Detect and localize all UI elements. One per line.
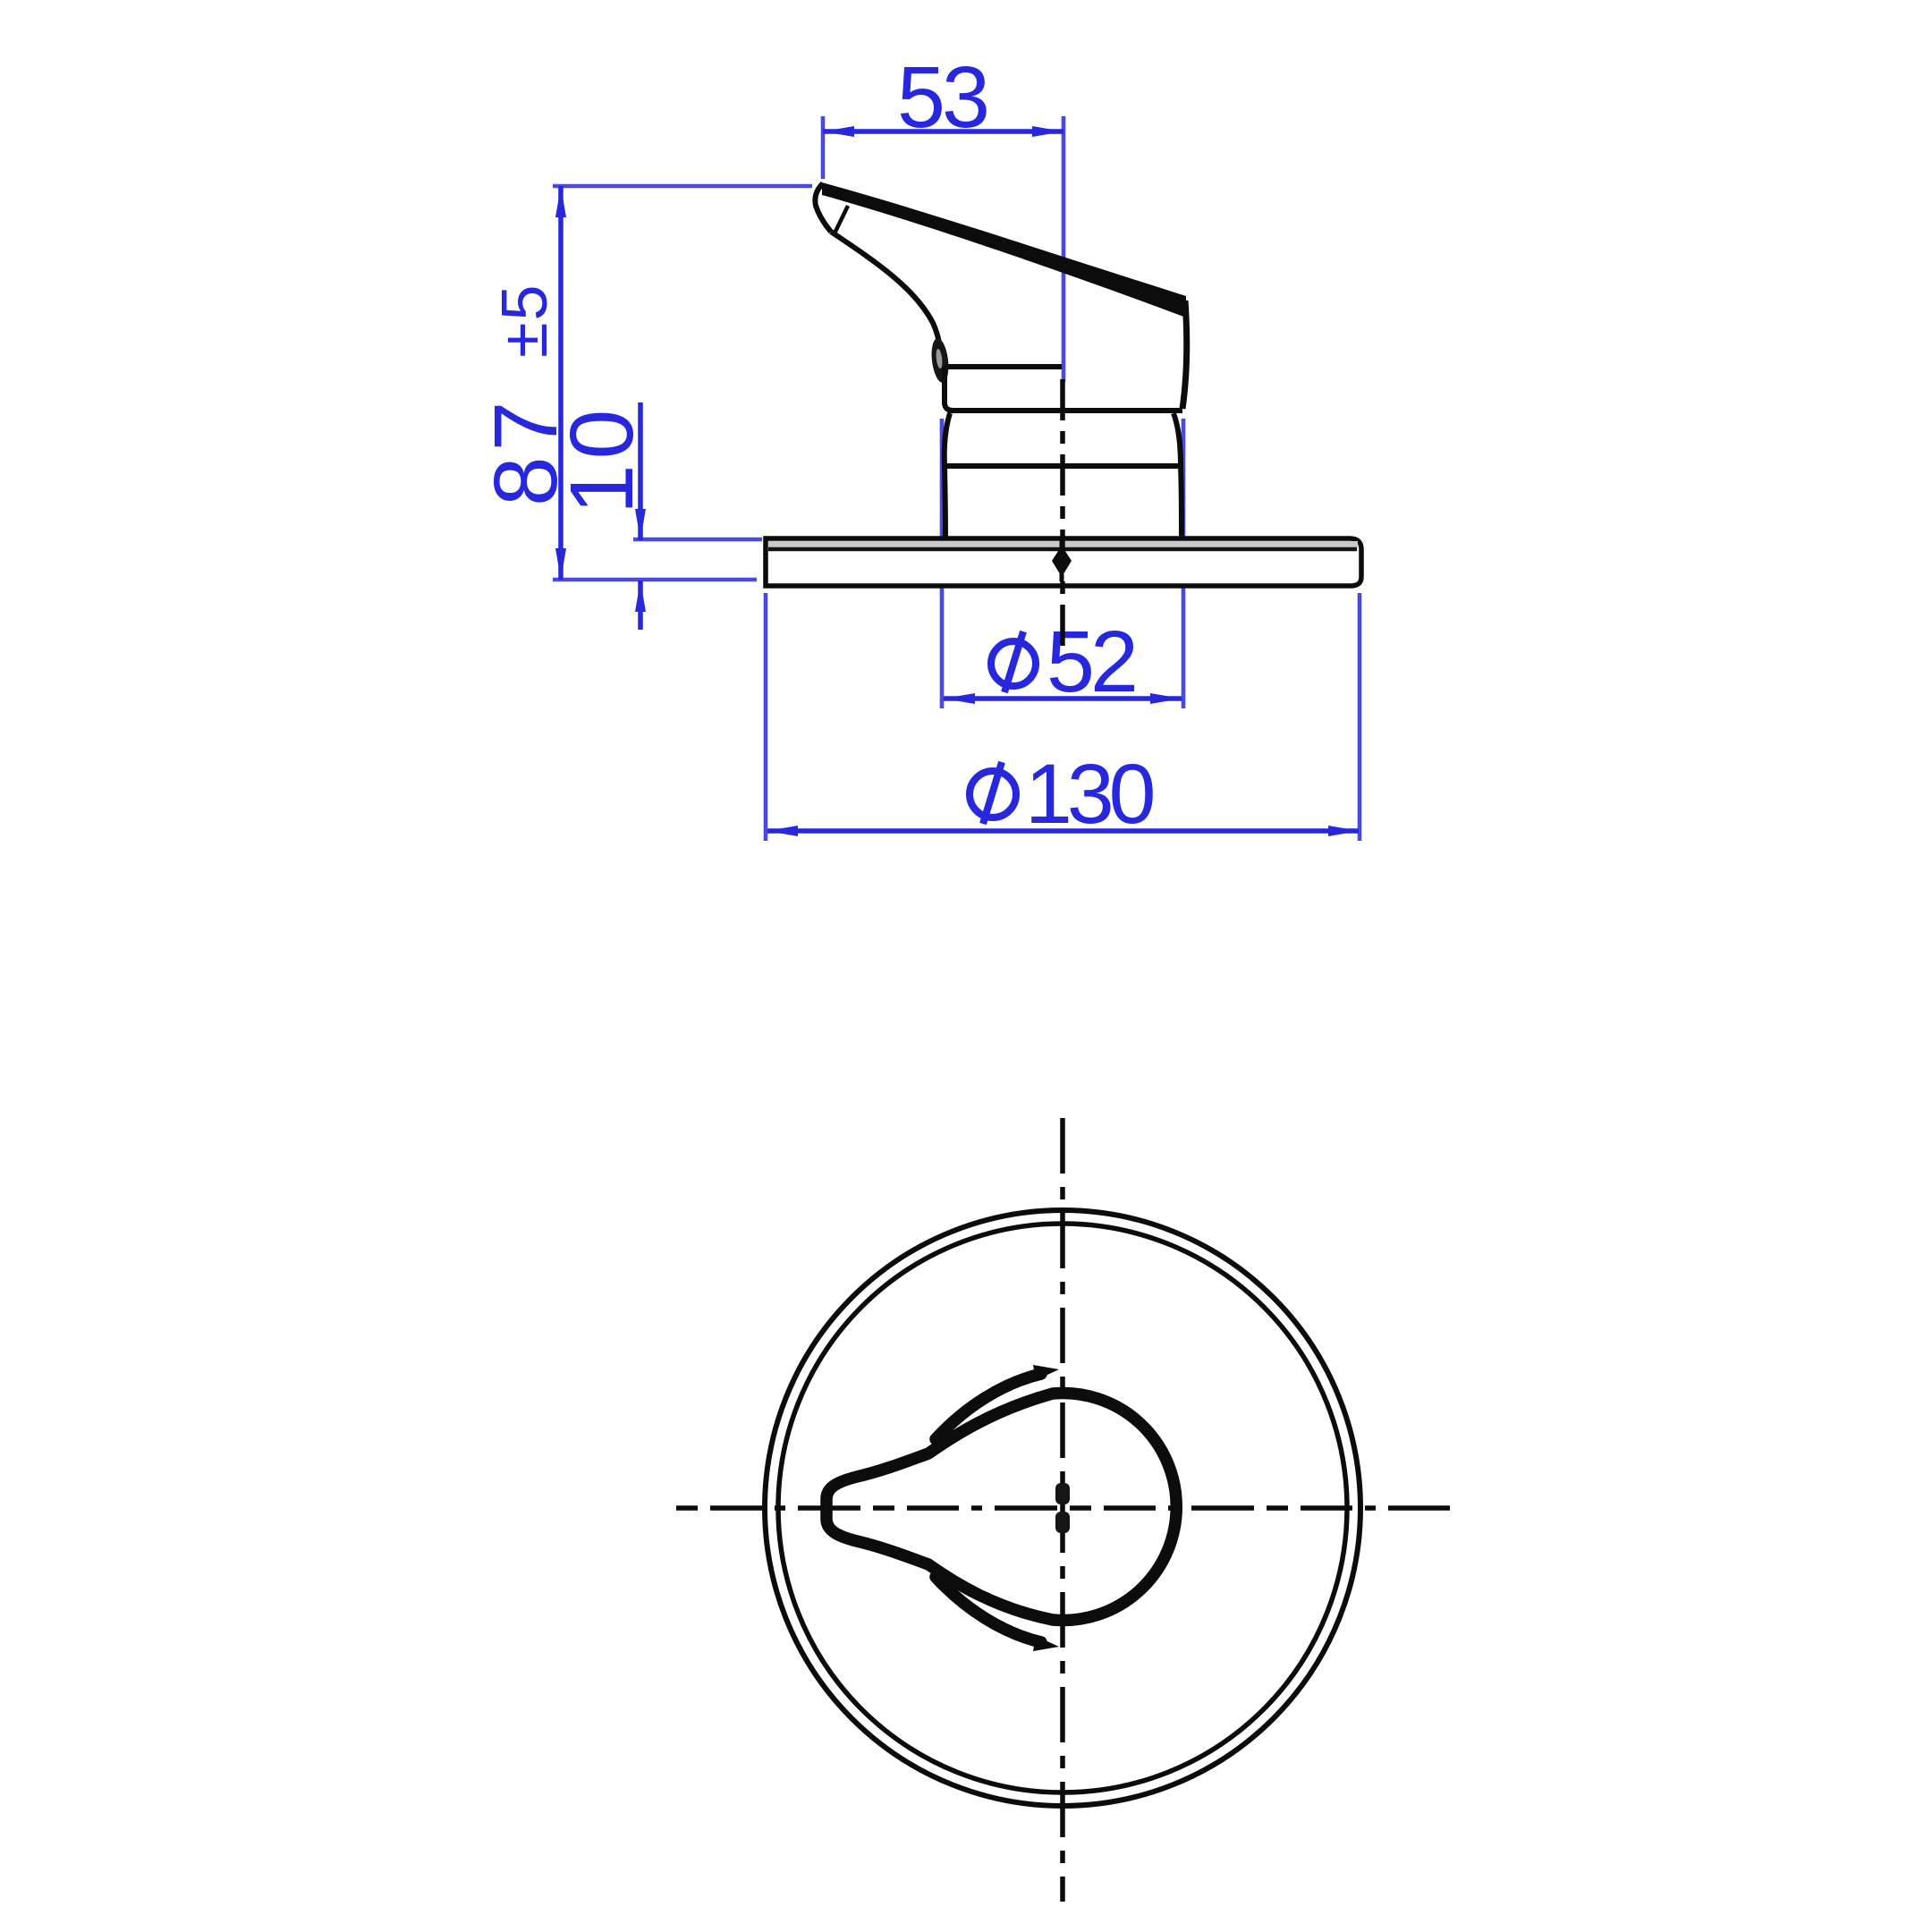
- diameter 52 arrow right: [1150, 693, 1182, 704]
- svg-text:130: 130: [1025, 747, 1154, 842]
- escutcheon plate center screw: [1052, 546, 1072, 577]
- dimension 87 arrow bottom: [555, 548, 566, 580]
- handle lever right edge: [1182, 301, 1187, 409]
- escutcheon plate (side view): [766, 538, 1361, 586]
- dimension 87/10 bottom extension line: [553, 578, 757, 582]
- handle collar top line: [945, 364, 1062, 369]
- rotation arc lower: [936, 1577, 1041, 1642]
- front view horizontal centerline: [676, 1505, 1450, 1511]
- svg-text:10: 10: [552, 404, 652, 514]
- rotation arc lower arrowhead: [1033, 1636, 1059, 1651]
- diameter 130 extension line right: [1358, 593, 1362, 841]
- dimension 87 top extension line: [553, 184, 812, 189]
- diameter 52 extension line left: [940, 419, 945, 708]
- diameter 52 extension line right: [1182, 419, 1186, 708]
- dimension 53 arrow left: [823, 126, 854, 137]
- dimension 87 arrow top: [555, 186, 566, 217]
- escutcheon plate top surface shading band: [768, 541, 1358, 548]
- cartridge stem right edge: [1174, 413, 1182, 538]
- handle collar left edge: [945, 367, 953, 411]
- svg-text:53: 53: [897, 48, 987, 146]
- handle side screw boss (ear): [929, 337, 951, 384]
- dimension 10 line lower segment: [638, 580, 643, 630]
- dimension 10 top extension line: [633, 538, 762, 542]
- diameter 130 arrow left: [767, 826, 798, 836]
- dimension 87 line: [558, 186, 563, 580]
- rotation arc upper: [936, 1374, 1041, 1439]
- diameter 52 dimension line: [944, 696, 1182, 701]
- dimension 10 line upper segment: [638, 402, 643, 540]
- svg-text:±5: ±5: [489, 283, 561, 358]
- diameter 52 arrow left: [944, 693, 975, 704]
- escutcheon outer circle (front view): [765, 1210, 1360, 1806]
- handle lever lower-left edge: [831, 232, 939, 343]
- dimension 53 extension line left: [821, 116, 826, 179]
- dimension 10 arrow up: [635, 580, 646, 612]
- cartridge stem left edge: [945, 413, 950, 538]
- handle lever tip rounded cap: [815, 183, 831, 232]
- svg-text:52: 52: [1046, 613, 1135, 710]
- front view vertical centerline: [1060, 1118, 1065, 1902]
- top view vertical centerline (dash-dot): [1060, 379, 1065, 654]
- dimension 53 arrow right: [1032, 126, 1063, 137]
- dimension 53 extension line right / centerline extension: [1062, 116, 1066, 382]
- handle collar bottom line: [948, 408, 1182, 413]
- handle lever tip facet line: [834, 206, 848, 235]
- diameter 130 symbol: [970, 762, 1016, 824]
- center screw slot mark (front view): [1055, 1483, 1070, 1504]
- diameter 52 symbol: [991, 631, 1036, 692]
- escutcheon plate inner top line: [768, 547, 1357, 552]
- escutcheon inner rim circle: [778, 1224, 1347, 1792]
- handle knob and grip outline (front view): [826, 1394, 1176, 1621]
- rotation arc upper arrowhead: [1033, 1365, 1059, 1380]
- diameter 130 extension line left: [764, 593, 768, 841]
- dimension 53 line: [823, 129, 1063, 134]
- diameter 130 dimension line: [767, 828, 1359, 834]
- handle lever blade (side view, thick top edge): [822, 182, 1186, 318]
- diameter 130 arrow right: [1328, 826, 1360, 836]
- cartridge stem mid line: [945, 463, 1181, 469]
- dimension 10 arrow down: [635, 509, 646, 540]
